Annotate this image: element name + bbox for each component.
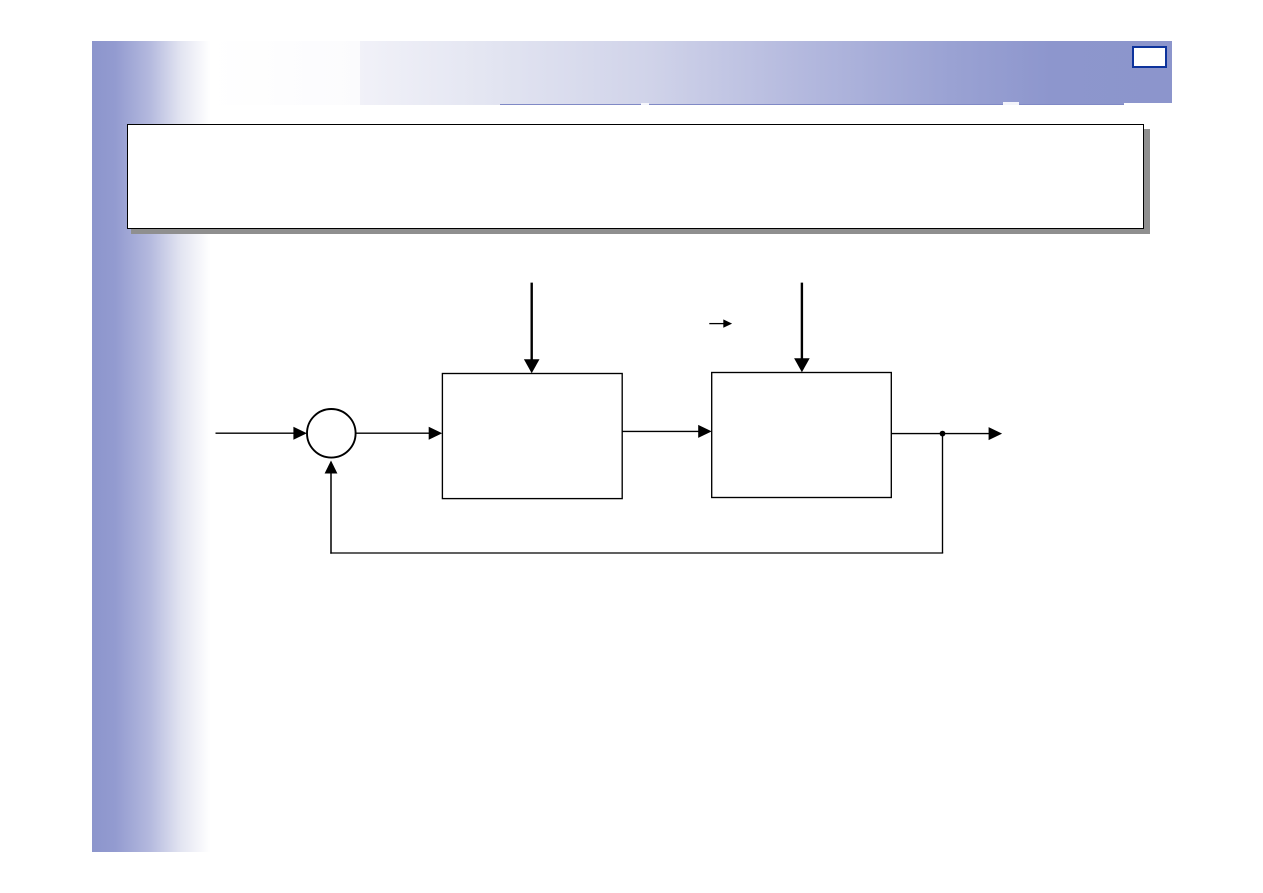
- block G (controller/plant 1): [442, 374, 622, 499]
- left gradient stripe: [92, 41, 210, 852]
- feedback wire across bottom: [330, 552, 943, 554]
- banner bottom dark edge: [500, 104, 1124, 105]
- top banner bar: [210, 41, 1172, 105]
- drop arrow into block H: [794, 283, 810, 373]
- block H (plant 2): [712, 373, 892, 498]
- wire block G to block H: [622, 425, 712, 438]
- banner white notch 2: [1003, 102, 1019, 104]
- banner white notch 1: [641, 103, 649, 105]
- title placeholder box: [127, 124, 1144, 229]
- small slide-number rectangle top right: [1132, 46, 1167, 68]
- output wire with arrowhead: [891, 427, 1002, 440]
- summing junction: [307, 409, 356, 458]
- banner right-end step: [1124, 103, 1172, 104]
- wire input r(t): [216, 427, 307, 440]
- junction node dot: [940, 431, 946, 437]
- wire junction to block G: [356, 427, 443, 440]
- feedback wire up with arrowhead into junction: [325, 461, 338, 554]
- small arrow above block H: [709, 319, 732, 327]
- drop arrow into block G: [524, 283, 540, 374]
- title box shadow: [131, 129, 1150, 234]
- feedback wire down: [942, 434, 944, 553]
